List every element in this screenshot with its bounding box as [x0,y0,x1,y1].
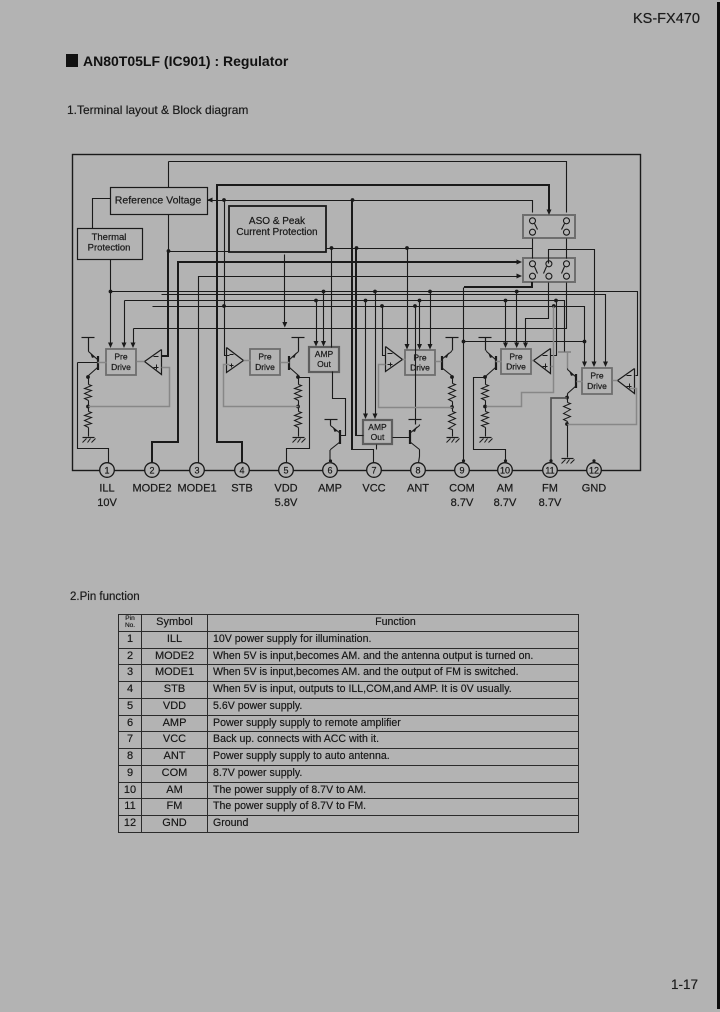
svg-text:Pre: Pre [114,352,128,362]
svg-text:Pre: Pre [258,352,272,362]
svg-text:Drive: Drive [410,363,430,373]
svg-text:12: 12 [589,466,599,476]
svg-text:4: 4 [239,466,244,476]
svg-text:1: 1 [104,466,109,476]
svg-text:AMP: AMP [318,483,342,495]
svg-text:9: 9 [459,466,464,476]
svg-text:Pre: Pre [509,352,523,362]
svg-text:8.7V: 8.7V [539,497,562,509]
svg-text:8.7V: 8.7V [494,497,517,509]
svg-text:ILL: ILL [99,483,114,495]
svg-text:11: 11 [545,466,554,476]
svg-text:10: 10 [500,466,510,476]
svg-text:Drive: Drive [255,362,275,372]
svg-text:Thermal: Thermal [92,232,127,243]
svg-text:8.7V: 8.7V [451,497,474,509]
svg-text:10V: 10V [97,497,117,509]
svg-text:Drive: Drive [111,362,131,372]
svg-text:AMP: AMP [315,349,334,359]
svg-text:3: 3 [194,466,199,476]
svg-text:5.8V: 5.8V [275,497,298,509]
svg-text:Current Protection: Current Protection [236,227,317,238]
svg-text:Out: Out [317,359,331,369]
svg-text:Drive: Drive [587,381,607,391]
svg-text:5: 5 [283,466,288,476]
svg-text:GND: GND [582,483,607,495]
svg-text:Pre: Pre [590,371,604,381]
svg-text:STB: STB [231,483,252,495]
svg-text:MODE1: MODE1 [177,483,216,495]
svg-text:VDD: VDD [274,483,297,495]
svg-text:6: 6 [327,466,332,476]
svg-text:ANT: ANT [407,483,429,495]
svg-text:7: 7 [371,466,376,476]
svg-text:FM: FM [542,483,558,495]
svg-text:Reference Voltage: Reference Voltage [115,195,202,207]
svg-text:VCC: VCC [362,483,385,495]
svg-text:MODE2: MODE2 [132,483,171,495]
svg-text:Drive: Drive [506,362,526,372]
svg-text:Out: Out [371,432,385,442]
svg-text:8: 8 [415,466,420,476]
svg-text:COM: COM [449,483,475,495]
svg-text:Protection: Protection [88,243,131,254]
svg-text:ASO & Peak: ASO & Peak [249,216,306,227]
svg-text:AMP: AMP [368,422,387,432]
svg-text:AM: AM [497,483,514,495]
svg-text:2: 2 [149,466,154,476]
